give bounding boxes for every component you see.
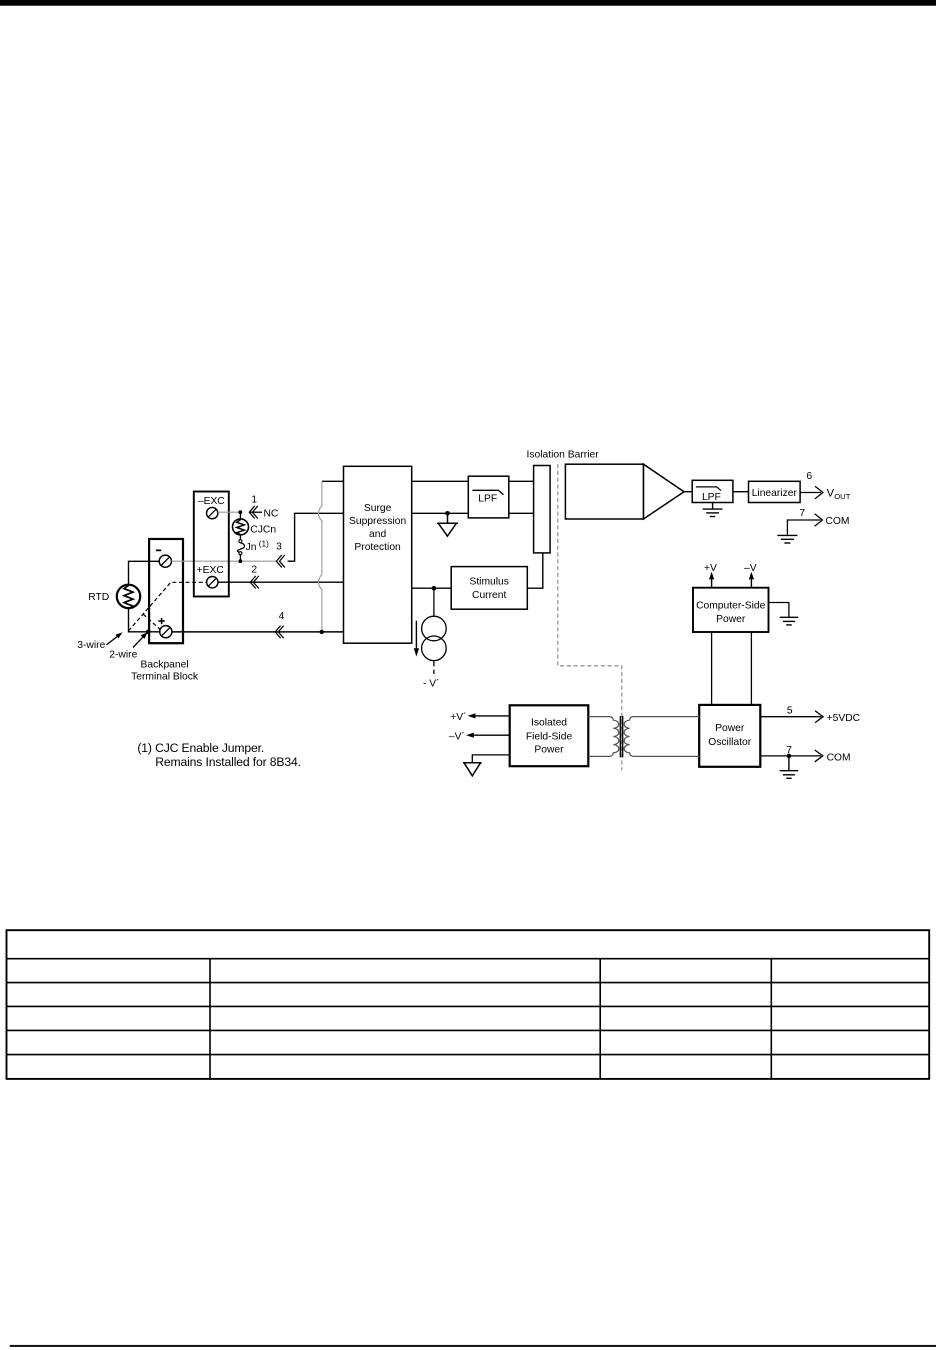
ground earth oscillator [780,756,799,778]
ground earth COM top [777,535,797,543]
label Vout [827,488,851,501]
wire surge to LPF bottom [412,512,469,514]
label 3-wire with arrow [77,632,122,651]
terminal -EXC [207,507,218,518]
svg-text:Isolation Barrier: Isolation Barrier [527,449,600,460]
terminal minus [159,555,171,567]
junction node 1 [238,510,242,514]
wire barrier to stimulus [527,553,543,588]
svg-text:Power: Power [716,614,746,625]
wire surge to LPF top [412,480,469,482]
wire 2 from +EXC to surge box [218,581,344,583]
block surge suppression [344,466,412,643]
ground earth computer side [780,617,799,625]
svg-text:3: 3 [276,542,282,553]
wire +V prime output [468,713,510,718]
svg-text:OUT: OUT [834,492,851,501]
wire linearizer to Vout pin 6 [800,486,823,498]
note CJC jumper text [137,741,300,769]
node 3 wire gray from minus terminal to chevron [171,560,276,562]
svg-text:2: 2 [251,565,257,576]
block stimulus current [451,567,527,610]
svg-text:+5VDC: +5VDC [827,713,861,724]
table row line 2 [7,982,930,984]
op-amp U1 [565,464,684,519]
svg-text:Computer-Side: Computer-Side [696,600,766,611]
block power oscillator [699,705,760,767]
svg-text:7: 7 [799,508,805,519]
svg-text:RTD: RTD [88,592,109,603]
ground field triangle 1 [437,513,458,536]
wire RTD bottom to plus terminal [129,608,161,632]
ground earth under LPF2 [703,503,723,517]
svg-text:Isolated: Isolated [531,718,567,729]
SECTION: schematic [77,449,860,778]
wire LPF to barrier bottom [509,512,534,514]
svg-text:COM: COM [825,516,849,527]
svg-text:Terminal Block: Terminal Block [131,672,199,683]
svg-text:LPF: LPF [702,492,721,503]
label minus [156,550,161,552]
junction stimulus tap [432,586,437,591]
svg-text:–V: –V [744,563,757,574]
svg-text:Suppression: Suppression [349,516,407,527]
wire dashed branch to plus terminal [143,614,160,629]
svg-text:and: and [369,529,386,540]
wire computer power to oscillator left [711,632,713,705]
svg-text:2-wire: 2-wire [109,650,137,661]
wire NC stub [250,511,262,513]
svg-text:NC: NC [264,508,279,519]
svg-text:Oscillator: Oscillator [708,737,751,748]
svg-text:5: 5 [787,706,793,717]
wire COM pin 7 [787,514,822,535]
junction ground tap [445,511,450,516]
table column line 1 [209,959,211,1079]
top header bar [0,0,936,6]
wire LPF2 to linearizer [733,491,749,493]
wire vertical gray with hops [318,481,322,632]
svg-text:Surge: Surge [364,503,392,514]
wire surge to stimulus [412,587,452,589]
wire 3 to surge box [288,513,344,561]
junction COM ground tap [787,754,792,759]
current source I1 [422,616,447,660]
isolation barrier coupler bar [534,466,551,553]
svg-text:Backpanel: Backpanel [141,660,189,671]
svg-text:- V´: - V´ [423,677,440,689]
table row line 5 [7,1054,930,1056]
svg-text:CJCn: CJCn [250,524,276,535]
pin 2 chevron [250,576,258,589]
resistor RTD [117,585,140,609]
backpanel terminal block box [149,539,183,643]
table outer border [7,930,930,1079]
svg-text:–V´: –V´ [449,730,465,742]
svg-text:+EXC: +EXC [197,565,225,576]
EXC block box [194,492,229,597]
wire 4 from plus terminal to surge box [172,631,344,633]
block computer-side power [693,588,769,632]
pin 1 chevron [249,506,257,519]
wire RTD top to minus terminal [129,561,160,585]
arrow -V [749,572,754,588]
bottom footer rule [10,1345,936,1347]
wire field power to ground triangle [472,755,509,763]
table row line 1 [7,958,930,960]
wire COM pin 7 bottom [760,750,823,762]
block linearizer [749,481,801,502]
svg-text:7: 7 [786,745,792,756]
SECTION: table [7,930,930,1079]
wire computer power to ground [769,603,789,618]
arrow +V [709,572,714,588]
svg-text:Jn: Jn [246,542,257,553]
table row line 3 [7,1005,930,1007]
resistor CJCn [233,519,249,535]
svg-text:3-wire: 3-wire [77,640,105,651]
junction node 3 jumper [239,559,243,563]
svg-text:Power: Power [715,723,745,734]
svg-text:COM: COM [827,752,851,763]
svg-text:Field-Side: Field-Side [526,732,573,743]
wire node1 to CJC [239,512,241,519]
wire amp to LPF2 [684,491,692,493]
svg-text:Stimulus: Stimulus [469,576,508,587]
filter LPF field-side [468,476,509,518]
terminal plus [160,626,172,638]
transformer T1 secondary winding [624,717,699,757]
pin 4 chevron [275,626,284,639]
table column line 3 [770,959,772,1079]
wire LPF to barrier top [509,480,534,482]
transformer T1 core [620,716,622,757]
label Backpanel Terminal Block [131,660,199,683]
svg-text:(1) CJC Enable Jumper.: (1) CJC Enable Jumper. [137,741,264,755]
wire 2-wire dashed diagonal to +EXC [129,582,207,631]
svg-text:(1): (1) [259,539,269,549]
junction dot 2-wire point [146,630,151,635]
jumper Jn [238,535,245,562]
transformer T1 primary winding [588,717,619,757]
wire -V prime output [466,733,510,738]
svg-text:+V: +V [704,563,717,574]
svg-text:Current: Current [472,590,506,601]
block isolated field-side power [510,705,589,766]
svg-text:+V´: +V´ [450,711,466,723]
label 2-wire with arrow [109,632,147,660]
wire to current source [433,588,435,616]
ground field triangle 2 [463,763,482,776]
svg-text:LPF: LPF [478,493,497,504]
wire +5VDC pin 5 [760,711,823,723]
table column line 2 [599,959,601,1079]
isolation barrier dashed line [558,464,622,770]
svg-text:1: 1 [251,494,257,505]
pin 3 chevron [276,555,285,568]
svg-text:Remains Installed for 8B34.: Remains Installed for 8B34. [155,755,301,769]
svg-text:Protection: Protection [354,542,401,553]
wire -EXC to node 1 [218,511,240,513]
filter LPF output-side [692,480,733,503]
table row line 4 [7,1029,930,1031]
svg-text:–EXC: –EXC [198,496,225,507]
junction node 4 [320,630,324,634]
svg-text:4: 4 [279,611,285,622]
svg-text:6: 6 [806,471,812,482]
terminal +EXC [207,577,218,588]
wire top feedback corner [322,480,344,482]
label plus [158,618,164,624]
wire dashed to -V supply [433,661,435,674]
svg-text:Power: Power [534,744,564,755]
arrow current direction [414,621,419,657]
svg-text:Linearizer: Linearizer [752,488,798,499]
wire computer power to oscillator right [750,632,752,705]
